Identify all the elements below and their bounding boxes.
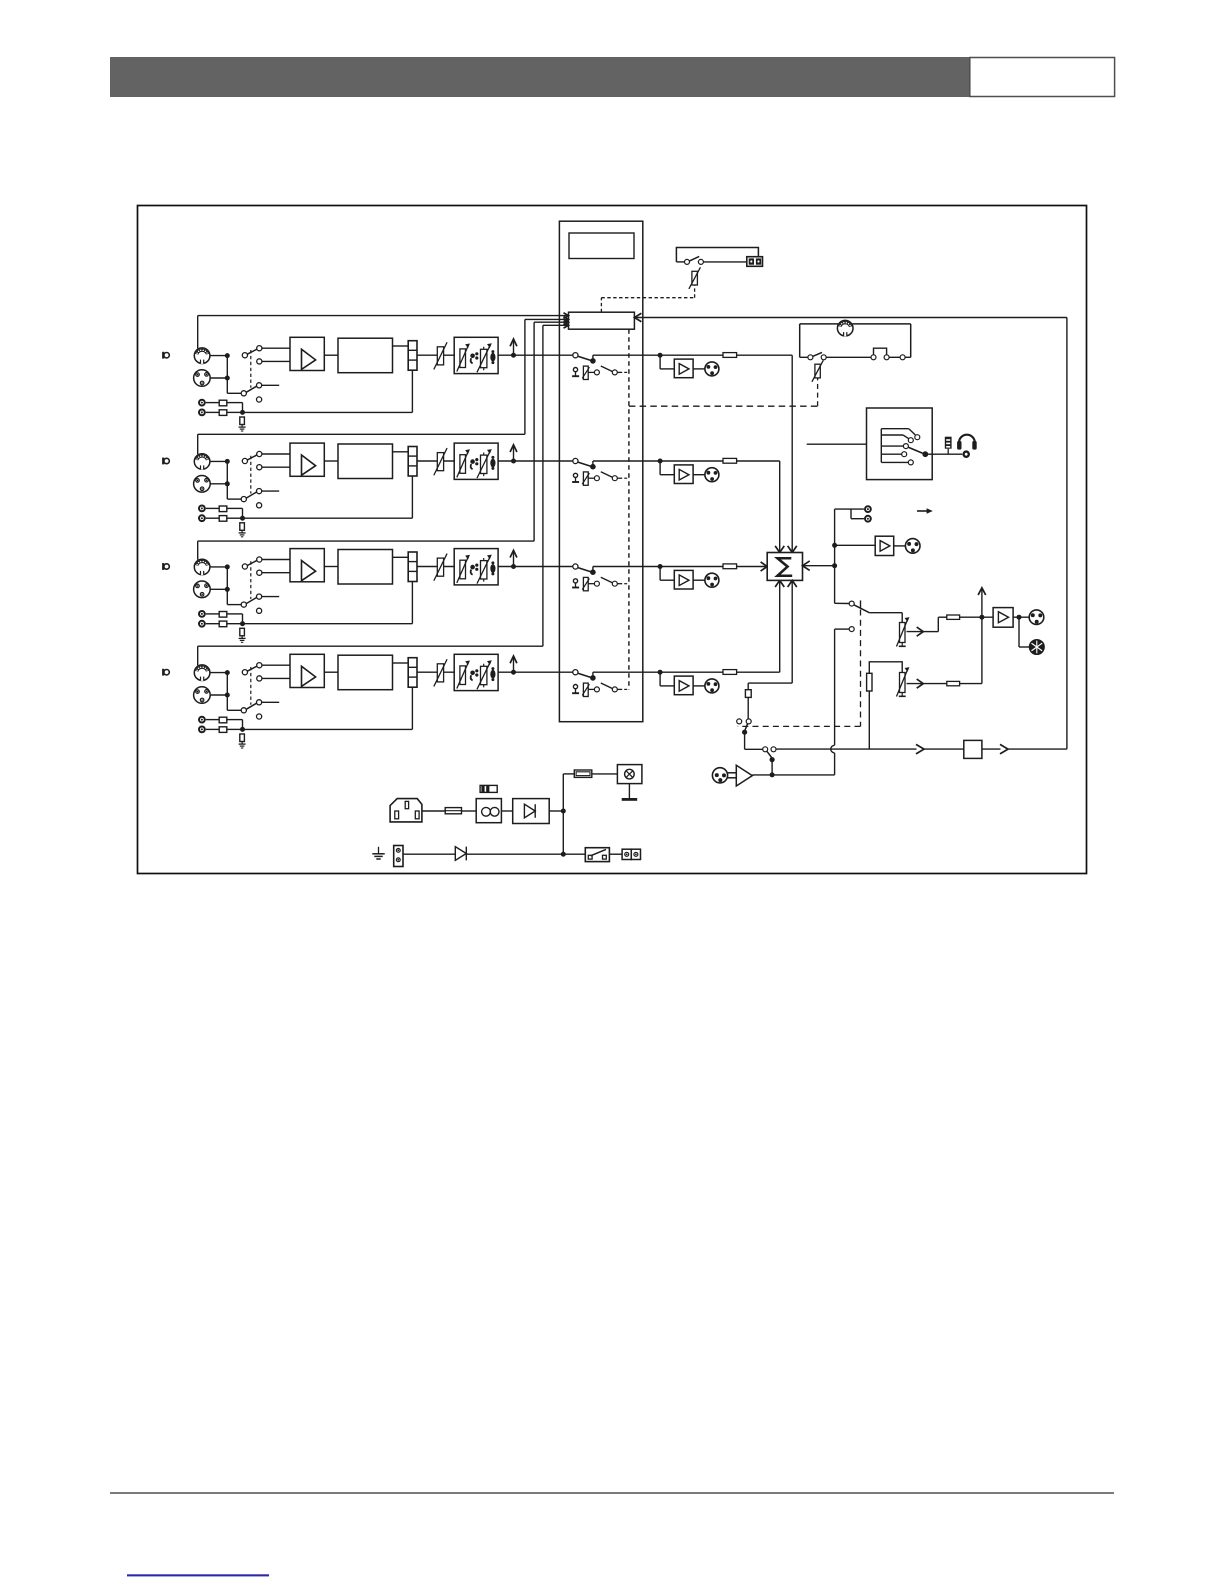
mic connector J2A [194, 454, 210, 470]
wire aux input 3 [240, 582, 412, 627]
wire tone out 3 [498, 566, 573, 568]
footer link underline [127, 1574, 269, 1576]
tone control block T4 [454, 654, 498, 690]
ground channel 1 [239, 425, 246, 432]
ground channel 4 [239, 742, 246, 749]
aux jack J4C [198, 716, 206, 724]
send arrow channel 4 [510, 656, 517, 675]
terminating resistor R4 [240, 734, 245, 742]
bass pot VR1B [457, 343, 470, 371]
wire all-call bus return [634, 313, 1067, 749]
aux jack J3C [198, 610, 206, 618]
preamp A4 [290, 654, 324, 687]
wire tone out 2 [498, 460, 573, 462]
aux wiper out [907, 679, 947, 688]
aux jack J2D [198, 514, 206, 522]
record direction arrow [917, 508, 933, 513]
switch gang S4 dashed [250, 667, 252, 705]
wire channel 1 to sum [737, 355, 797, 552]
fader VR4 [434, 659, 447, 686]
direct out XLR J2E [705, 468, 719, 482]
aux jack J4D [198, 726, 206, 734]
direct out XLR J3E [705, 573, 719, 587]
tone control block T3 [454, 549, 498, 585]
wire processor to header 3 [393, 556, 409, 558]
wire channel 2 phantom bus [198, 317, 569, 455]
voltage selector [480, 785, 497, 792]
channel header X4 [408, 658, 417, 688]
direct out XLR J4E [705, 679, 719, 693]
terminating resistor R3 [240, 628, 245, 636]
diagram frame [138, 206, 1087, 874]
bus isolation box U6 [964, 740, 982, 758]
input select switch S1A [242, 346, 290, 364]
processor block U4 [338, 655, 393, 690]
send arrow channel 1 [510, 339, 517, 358]
wire lamp branch [563, 773, 574, 775]
mic connector J3A [194, 559, 210, 575]
tape input XLR J6 [712, 768, 727, 783]
monitor volume VR5 [896, 617, 909, 646]
wire preamp to processor 4 [324, 671, 338, 673]
send arrow channel 2 [510, 445, 517, 464]
aux coupling caps 2 [206, 506, 243, 521]
channel 4 aux source marker [163, 669, 169, 676]
wire header to fader 4 [417, 671, 455, 673]
phones jack J12 [962, 450, 970, 458]
display window [569, 233, 634, 259]
priority switch S4 [685, 256, 747, 264]
channel 1 aux source marker [163, 352, 169, 359]
wire header to fader 1 [417, 354, 455, 356]
wire channel 2 to sum [737, 461, 785, 553]
line out amp A7 [835, 536, 906, 555]
line out XLR J9 [905, 539, 920, 554]
wire channel 1 post mute [593, 353, 723, 358]
mic connector J1A [194, 348, 210, 364]
terminating resistor R2 [240, 523, 245, 531]
wire fuse to transformer [462, 810, 477, 812]
bass icon 1 [470, 352, 478, 363]
channel 3 aux source marker [163, 563, 169, 570]
aux coupling caps 1 [206, 400, 243, 415]
preamp A1 [290, 337, 324, 370]
tape resistor R20 [745, 690, 751, 698]
dashed link to vox pot [629, 378, 818, 406]
post amp A2B [660, 461, 705, 484]
wire channel 4 post mute [593, 670, 723, 675]
line connector J1B [194, 370, 211, 387]
monitor resistor R21 [947, 615, 960, 619]
wire switch to plug [609, 853, 622, 855]
summing resistor R4S [723, 670, 737, 675]
wire transformer to rectifier [501, 810, 512, 812]
record out jack J7 [864, 505, 872, 513]
preamp A2 [290, 443, 324, 476]
wire channel 4 phantom bus [198, 322, 569, 665]
wire processor to header 4 [393, 662, 409, 664]
mute switch K4 contact [573, 670, 596, 681]
input select switch S4A [242, 663, 290, 681]
dashed mute gang bus [628, 329, 630, 689]
vox level pot VR8 [812, 360, 823, 381]
mute relay K3 coil [572, 577, 629, 591]
wire tape to sum [748, 580, 797, 689]
aux coupling caps 4 [206, 717, 243, 732]
aux volume VR6 [896, 667, 909, 696]
summing resistor R2S [723, 458, 737, 463]
aux jack J3D [198, 620, 206, 628]
remote power connector J14 [394, 846, 403, 867]
aux volume bracket [869, 662, 902, 674]
switch gang S2 dashed [250, 456, 252, 494]
power switch S10 [585, 848, 609, 862]
record switch S7 [745, 747, 776, 775]
direct out XLR J1E [705, 362, 719, 376]
treble pot VR1T [477, 343, 492, 372]
mains inlet [390, 799, 422, 822]
channel header X2 [408, 447, 417, 477]
mic connector J4A [194, 665, 210, 681]
summing amplifier U5 [767, 553, 802, 581]
speaker selector S9 [867, 408, 933, 480]
monitor switch gang dashed [738, 610, 861, 727]
bus resistor R22 [867, 673, 872, 691]
wire tape amp out [752, 629, 849, 777]
monitor wiper out [907, 617, 947, 636]
priority terminal block [747, 257, 763, 267]
bass pot VR2B [457, 449, 470, 477]
mute relay K1 coil [572, 366, 629, 380]
bass icon 3 [470, 564, 478, 575]
mute switch K3 contact [573, 564, 596, 575]
channel header X1 [408, 341, 417, 371]
wire to monitor amp [960, 588, 994, 620]
line connector J4B [194, 687, 211, 704]
input select switch S3A [242, 557, 290, 575]
lamp fuse F2 [574, 770, 592, 777]
post amp A3B [660, 567, 705, 590]
aux jack J1C [198, 399, 206, 407]
tape select switch S6 [737, 697, 752, 749]
mute relay K2 coil [572, 472, 629, 486]
terminating resistor R1 [240, 417, 245, 425]
wire sum output node [803, 509, 838, 603]
wire 100V bus [776, 744, 1067, 754]
wire channel 3 to sum [737, 562, 768, 571]
processor block U3 [338, 550, 393, 585]
wire aux input 1 [240, 370, 412, 415]
priority loop wiring [676, 248, 758, 262]
post amp A4B [660, 672, 705, 694]
vox mic loop wiring [800, 324, 911, 357]
fader VR3 [434, 554, 447, 581]
wire aux input 2 [240, 476, 412, 521]
phones level trimmer [945, 437, 952, 455]
wire aux input 4 [240, 687, 412, 732]
wire remote line [403, 853, 455, 855]
footer rule [110, 1492, 1114, 1494]
wire aux join [960, 617, 982, 683]
header bar [110, 57, 970, 97]
wire fuse to lamp [592, 773, 618, 775]
monitor amp A8 [993, 608, 1029, 628]
wire preamp to processor 1 [324, 354, 338, 356]
wire preamp to processor 3 [324, 566, 338, 568]
wire phones out [928, 453, 962, 455]
header revision box [970, 58, 1115, 97]
wire preamp to processor 2 [324, 460, 338, 462]
rectifier U7 [513, 799, 550, 824]
bass pot VR3B [457, 555, 470, 583]
bass pot VR4B [457, 660, 470, 688]
wire diode to junction [466, 853, 585, 855]
tone control block T2 [454, 443, 498, 479]
tone control block T1 [454, 337, 498, 373]
input select switch S1B [241, 383, 279, 402]
mute relay K4 coil [572, 683, 629, 697]
switch gang S1 dashed [250, 350, 252, 388]
treble pot VR2T [477, 449, 492, 478]
line connector J2B [194, 476, 211, 493]
wire channel 3 phantom bus [198, 319, 569, 559]
wire processor to header 2 [393, 451, 409, 453]
line connector J3B [194, 581, 211, 598]
pilot lamp [617, 765, 642, 784]
earth terminal [372, 847, 384, 859]
summing resistor R3S [723, 564, 737, 569]
ground channel 3 [239, 636, 246, 643]
bass icon 2 [470, 458, 478, 469]
wire channel 4 input junctions [210, 670, 241, 710]
bass icon 4 [470, 669, 478, 680]
vox switch S5 [808, 352, 871, 359]
monitor speaker [1019, 617, 1044, 654]
headphones icon [957, 435, 977, 450]
wire channel 3 post mute [593, 564, 723, 569]
wire header to fader 2 [417, 460, 455, 462]
mute switch K1 contact [573, 353, 596, 364]
treble pot VR3T [477, 555, 492, 584]
wire channel 3 input junctions [210, 564, 241, 604]
post amp A1B [660, 355, 705, 378]
send arrow channel 3 [510, 550, 517, 569]
dashed control link to priority pot [601, 285, 694, 312]
record out jack J8 [864, 515, 872, 523]
channel 2 aux source marker [163, 458, 169, 465]
treble pot VR4T [477, 660, 492, 689]
monitor out XLR J11 [1029, 610, 1044, 625]
mute switch K2 contact [573, 458, 596, 469]
wire tone out 4 [498, 671, 573, 673]
wire channel 1 phantom bus [198, 313, 569, 349]
switch gang S3 dashed [250, 561, 252, 599]
wire header to fader 3 [417, 566, 455, 568]
record out wiring [835, 509, 864, 519]
wire to speaker selector [807, 443, 867, 445]
treble icon 2 [490, 456, 495, 470]
channel header X3 [408, 552, 417, 582]
input select switch S4B [241, 700, 279, 719]
wire channel 1 input junctions [210, 353, 241, 393]
wire tone out 1 [498, 354, 573, 356]
aux coupling caps 3 [206, 612, 243, 627]
input select switch S2B [241, 489, 279, 508]
mains fuse F1 [445, 808, 461, 814]
input select switch S2A [242, 451, 290, 469]
ground channel 2 [239, 530, 246, 537]
aux jack J1D [198, 409, 206, 417]
vox jack break contact [871, 348, 911, 360]
wire rectifier out [549, 774, 566, 857]
wire bus resistor down [868, 691, 870, 749]
power transformer T1 [476, 799, 501, 823]
aux resistor R23 [947, 681, 960, 685]
treble icon 1 [490, 350, 495, 364]
wire channel 2 post mute [593, 459, 723, 464]
processor block U1 [338, 338, 393, 373]
fader VR2 [434, 448, 447, 475]
wire processor to header 1 [393, 345, 409, 347]
input select switch S3B [241, 594, 279, 613]
fader VR1 [434, 342, 447, 369]
preamp A3 [290, 549, 324, 582]
tape preamp A6 [727, 765, 752, 786]
lamp chassis [622, 784, 638, 800]
bus connector J10 [569, 312, 635, 329]
vox mic connector J13 [837, 320, 853, 336]
treble icon 3 [490, 561, 495, 575]
priority level pot VR7 [689, 267, 701, 289]
summing resistor R1S [723, 353, 737, 358]
processor block U2 [338, 444, 393, 479]
aux jack J2C [198, 505, 206, 513]
treble icon 4 [490, 667, 495, 681]
wire channel 4 to sum [737, 580, 785, 672]
monitor source switch S8 [835, 600, 903, 631]
wire channel 2 input junctions [210, 459, 241, 499]
wire mains to fuse [422, 810, 445, 812]
blocking diode D1 [455, 847, 466, 861]
power link plug [622, 849, 640, 859]
controller module U10 outline [559, 221, 642, 722]
